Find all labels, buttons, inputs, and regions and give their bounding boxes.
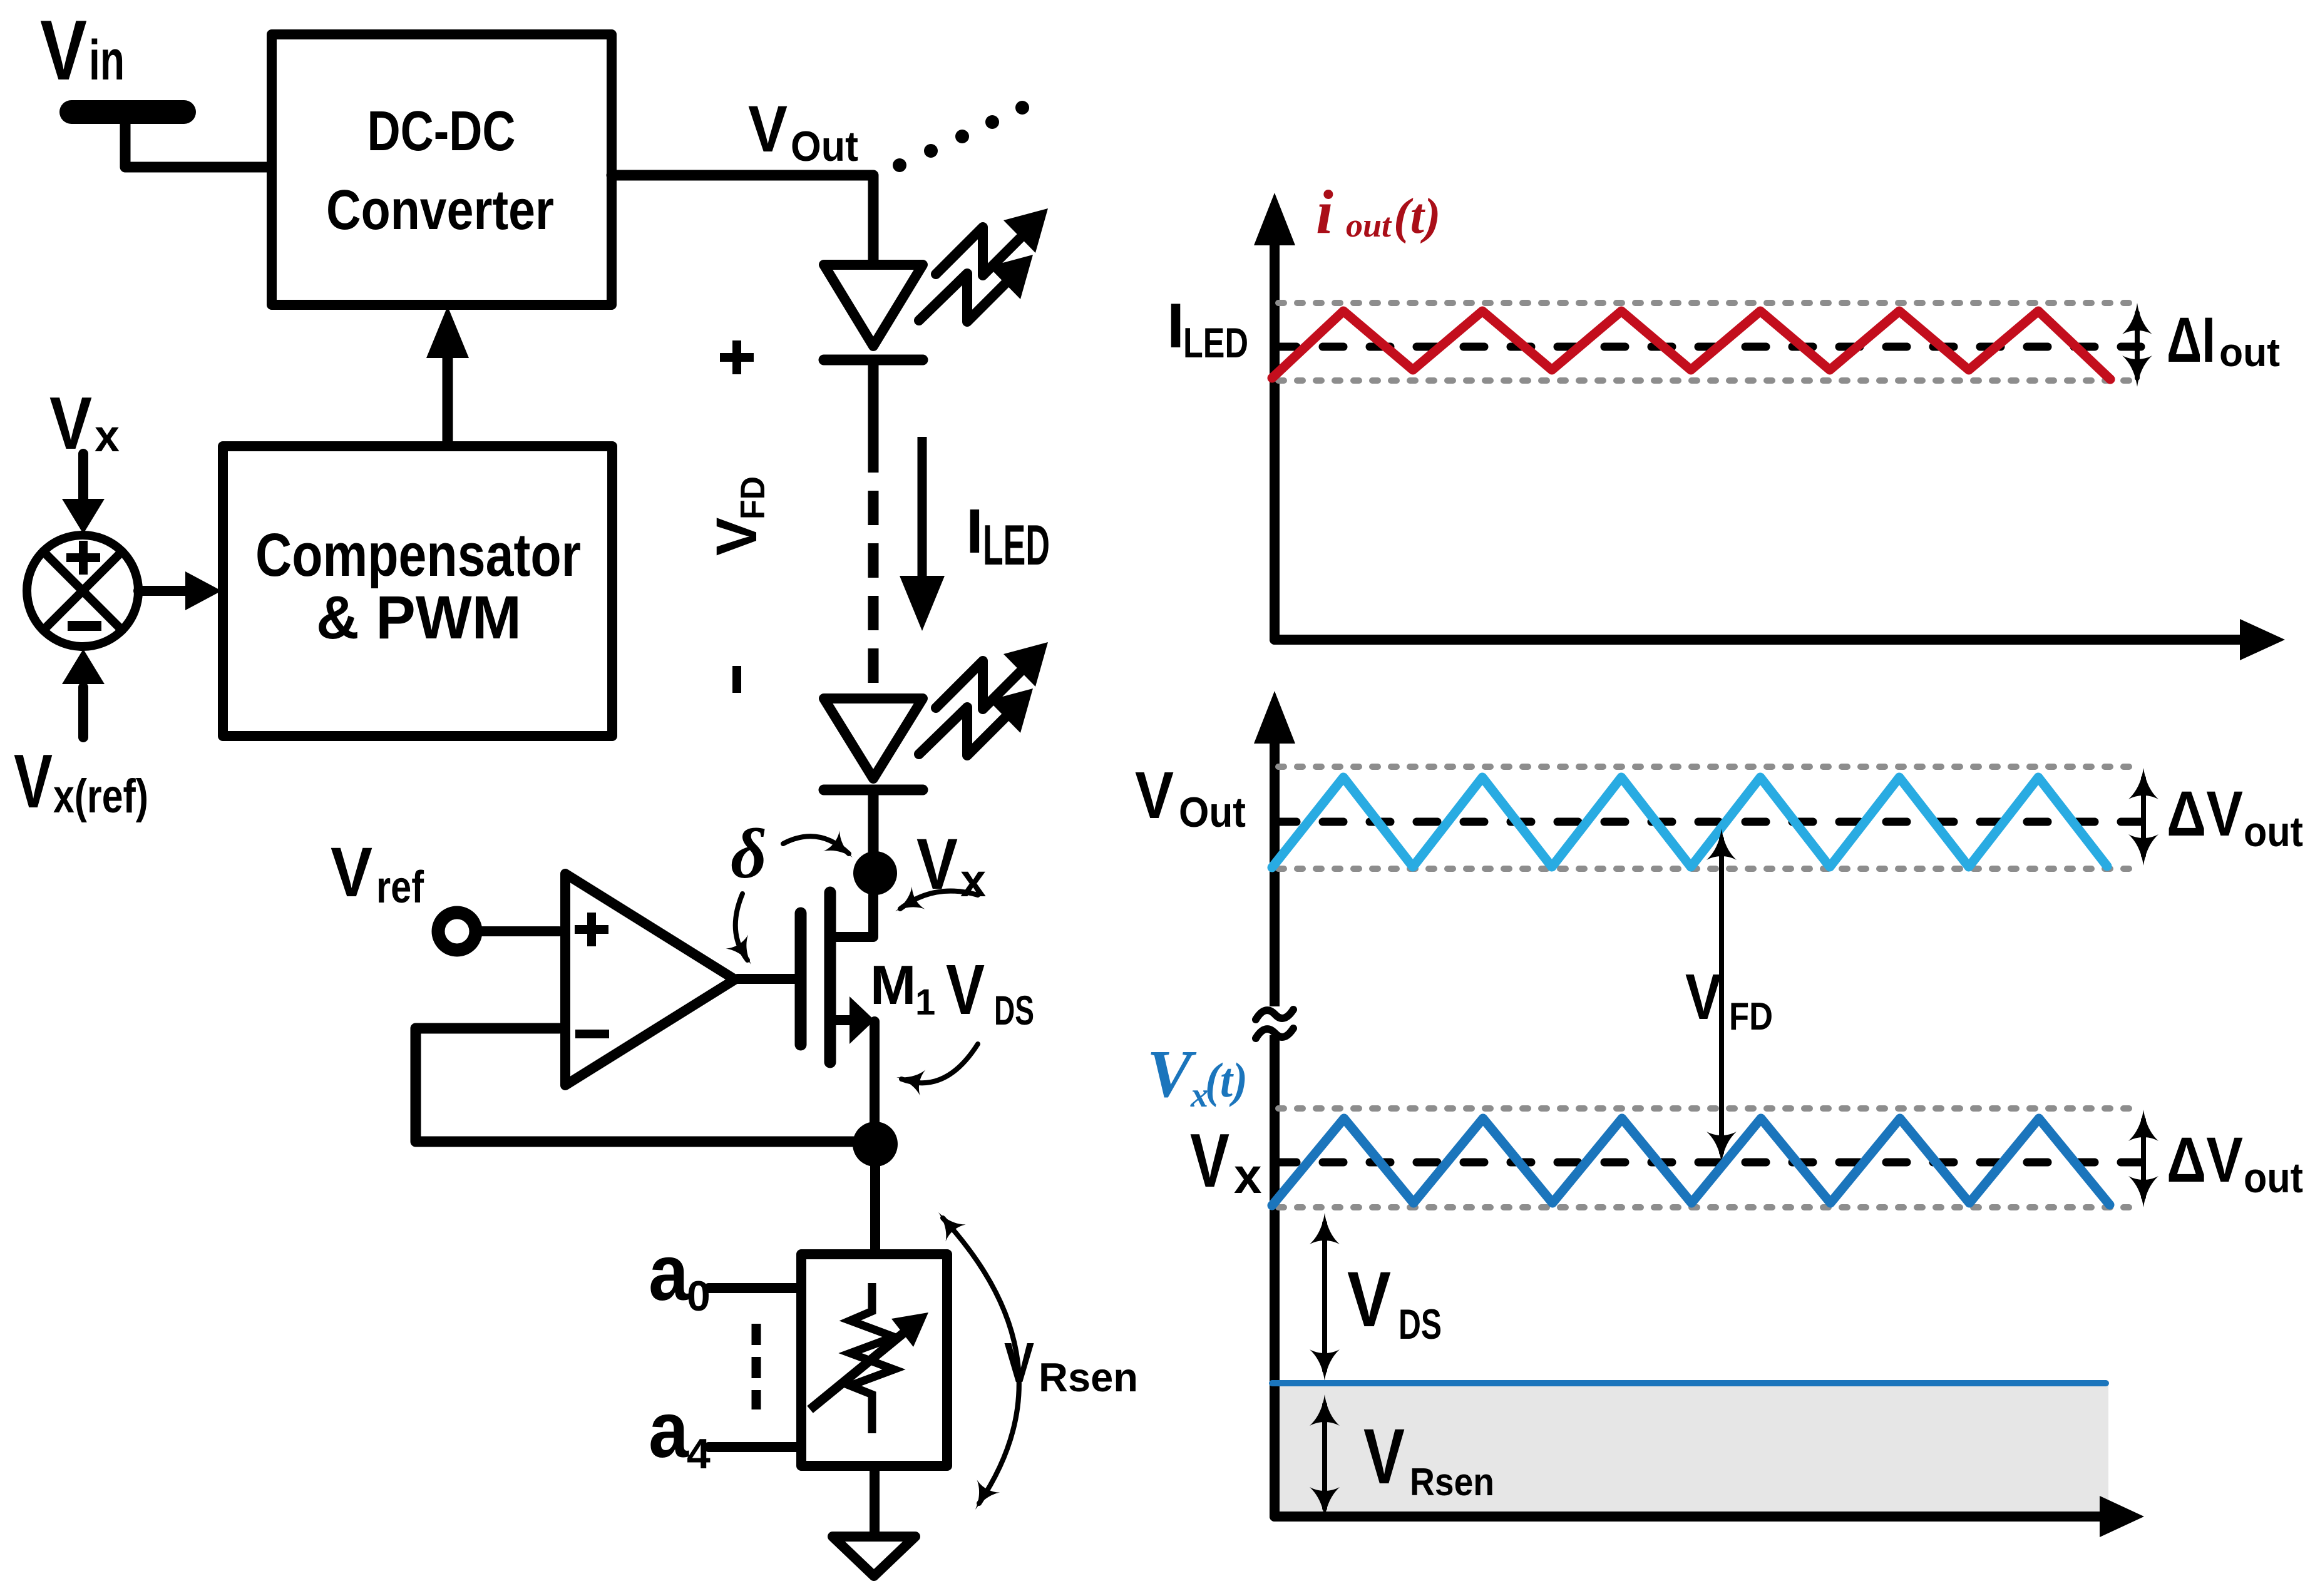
wire Vref to op-amp	[477, 926, 559, 936]
curved arrow delta to gate	[726, 894, 762, 971]
label VRsen (circuit)	[1004, 1332, 1138, 1400]
svg-text:V: V	[748, 93, 788, 166]
LED D2	[824, 698, 923, 790]
label delta-Vout top	[2167, 778, 2303, 856]
svg-text:out: out	[1346, 207, 1392, 244]
svg-text:(t): (t)	[1394, 189, 1441, 244]
svg-text:LED: LED	[1183, 319, 1248, 367]
op-amp U1	[565, 874, 735, 1085]
svg-text:V: V	[1363, 1413, 1405, 1500]
arrow delta-Iout	[2122, 303, 2152, 387]
transistor M1	[737, 893, 875, 1133]
svg-text:V: V	[1147, 1037, 1197, 1112]
dashed separator a0..a4	[752, 1324, 761, 1409]
block Compensator & PWM	[223, 446, 612, 736]
svg-text:V: V	[946, 950, 985, 1029]
svg-text:out: out	[2219, 330, 2280, 375]
svg-text:DS: DS	[1399, 1301, 1442, 1348]
curved arrow VDS to source rail	[894, 1044, 978, 1095]
label Vx (plot)	[1190, 1118, 1262, 1204]
svg-text:V: V	[1347, 1256, 1391, 1343]
LED D1	[824, 265, 923, 360]
svg-text:0: 0	[687, 1272, 711, 1320]
svg-text:I: I	[966, 496, 983, 566]
waveform Vx ripple	[1272, 1118, 2110, 1205]
label a0	[649, 1229, 711, 1320]
svg-text:FD: FD	[733, 476, 772, 519]
arrow Vx into summing junction	[62, 454, 105, 534]
label delta-Vout bottom	[2167, 1124, 2303, 1202]
svg-text:ΔI: ΔI	[2167, 304, 2215, 376]
svg-text:V: V	[40, 3, 87, 98]
label Vin	[40, 3, 125, 98]
arrow compensator to DC-DC	[426, 306, 469, 446]
wire LED string dashed	[868, 438, 879, 698]
wire VOut	[612, 175, 873, 265]
label VOut (plot)	[1135, 759, 1246, 836]
svg-text:Out: Out	[1179, 789, 1246, 836]
label a4	[649, 1386, 711, 1478]
svg-text:ΔV: ΔV	[2167, 1124, 2243, 1195]
label Vx(ref)	[14, 739, 148, 824]
upper plot x-axis	[1275, 619, 2285, 660]
wire a4	[709, 1442, 796, 1452]
black dashed VOut level	[1276, 818, 2141, 826]
minus sign VFD (rotated)	[732, 666, 741, 693]
svg-text:ΔV: ΔV	[2167, 778, 2243, 849]
gray dotted lower line (top plot)	[1278, 377, 2141, 384]
svg-text:Rsen: Rsen	[1410, 1461, 1494, 1504]
label VRsen (plot)	[1363, 1413, 1494, 1504]
label ILED	[966, 496, 1050, 577]
gray dotted top (Vx band upper)	[1278, 1105, 2141, 1112]
svg-text:a: a	[649, 1229, 689, 1317]
svg-text:Converter: Converter	[326, 179, 554, 242]
shaded VRsen region	[1280, 1385, 2108, 1512]
wire node to Rsen	[870, 1144, 880, 1251]
svg-text:ref: ref	[376, 862, 424, 913]
dotted continuation	[893, 101, 1029, 172]
label VFD (plot)	[1685, 961, 1773, 1038]
svg-text:I: I	[1167, 291, 1184, 361]
block DC-DC Converter	[272, 34, 612, 305]
curved arrow Vx to drain	[889, 886, 978, 923]
flat line Vrsen top	[1272, 1380, 2106, 1386]
svg-text:V: V	[1685, 961, 1722, 1033]
waveform i_out ripple	[1272, 311, 2110, 379]
summing junction	[27, 535, 138, 647]
wire LED string solid	[868, 360, 879, 438]
lower plot y-axis	[1254, 691, 1295, 1517]
label VDS at M1	[946, 950, 1034, 1033]
svg-text:x: x	[95, 411, 120, 461]
wire a0	[709, 1283, 796, 1293]
power rail Vin	[71, 100, 184, 124]
svg-text:V: V	[1004, 1332, 1034, 1394]
arrow summing junction to compensator	[138, 571, 222, 610]
light arrows D2	[919, 642, 1048, 755]
resistor Rsen box	[801, 1254, 947, 1466]
wire Rsen to ground	[870, 1466, 880, 1535]
feedback wire op-amp inverting input	[416, 1028, 854, 1142]
svg-text:i: i	[1316, 177, 1333, 247]
svg-text:V: V	[1135, 759, 1174, 832]
label M1	[870, 954, 935, 1023]
svg-text:4: 4	[687, 1430, 711, 1478]
svg-text:Rsen: Rsen	[1039, 1354, 1138, 1400]
svg-text:(t): (t)	[1205, 1053, 1248, 1107]
svg-text:δ: δ	[731, 815, 767, 893]
label Vx(t)	[1147, 1037, 1248, 1115]
gray dotted top (VOut band upper)	[1278, 764, 2141, 770]
svg-text:Compensator: Compensator	[255, 521, 581, 589]
svg-text:LED: LED	[983, 514, 1050, 577]
label Vx (summing input)	[49, 382, 120, 465]
arrow Vx(ref) into summing junction	[62, 649, 105, 737]
gray dotted (Vx band lower)	[1278, 1204, 2141, 1210]
black dashed Vx level	[1276, 1159, 2141, 1167]
svg-text:DS: DS	[994, 987, 1034, 1033]
axis break	[1251, 1006, 1296, 1038]
svg-text:DC-DC: DC-DC	[367, 100, 516, 163]
label ILED (upper plot)	[1167, 291, 1248, 367]
svg-text:M: M	[870, 954, 916, 1016]
arrow VDS	[1310, 1213, 1340, 1381]
node Vx	[853, 851, 897, 895]
label VOut	[748, 93, 858, 170]
svg-text:x(ref): x(ref)	[53, 770, 148, 823]
svg-text:V: V	[14, 739, 53, 824]
black dashed ILED level	[1276, 343, 2141, 351]
node source-feedback	[853, 1122, 898, 1167]
label Vx at node	[916, 824, 986, 906]
plus sign VFD	[720, 340, 754, 374]
arrow ILED	[900, 437, 945, 631]
svg-text:1: 1	[915, 982, 935, 1023]
input terminal Vref	[438, 913, 476, 950]
gray dotted (VOut band lower)	[1278, 866, 2141, 872]
svg-text:V: V	[331, 833, 372, 911]
arrow VRsen	[1310, 1394, 1340, 1518]
upper plot y-axis	[1254, 193, 1295, 640]
light arrows D1	[919, 208, 1048, 322]
arc VRsen across Rsen	[928, 1204, 1019, 1517]
svg-text:out: out	[2244, 808, 2303, 856]
arrow VFD	[1707, 829, 1737, 1163]
gray dotted upper line (top plot)	[1278, 300, 2141, 306]
svg-text:& PWM: & PWM	[316, 583, 521, 652]
arrow delta-Vout top	[2128, 768, 2158, 866]
svg-text:Out: Out	[791, 123, 858, 170]
svg-text:a: a	[649, 1386, 689, 1474]
wire Vin to DC-DC converter	[125, 116, 272, 167]
svg-text:FD: FD	[1729, 995, 1773, 1038]
label i out (t)	[1316, 177, 1441, 247]
ground	[833, 1537, 915, 1576]
label VDS (plot)	[1347, 1256, 1442, 1348]
svg-text:x: x	[960, 854, 986, 906]
label VFD (rotated)	[705, 476, 772, 556]
svg-text:V: V	[1190, 1118, 1229, 1203]
svg-text:x: x	[1234, 1148, 1262, 1204]
waveform VOut ripple	[1272, 777, 2107, 867]
svg-text:out: out	[2244, 1154, 2303, 1202]
wire D2 to node Vx	[868, 790, 879, 873]
label Vref	[331, 833, 424, 913]
curved arrow delta to node	[783, 831, 861, 868]
label delta-Iout	[2167, 304, 2280, 376]
svg-text:V: V	[705, 518, 769, 556]
lower plot x-axis	[1275, 1496, 2144, 1537]
svg-text:in: in	[89, 29, 125, 92]
arrow delta-Vout bottom	[2128, 1110, 2158, 1207]
